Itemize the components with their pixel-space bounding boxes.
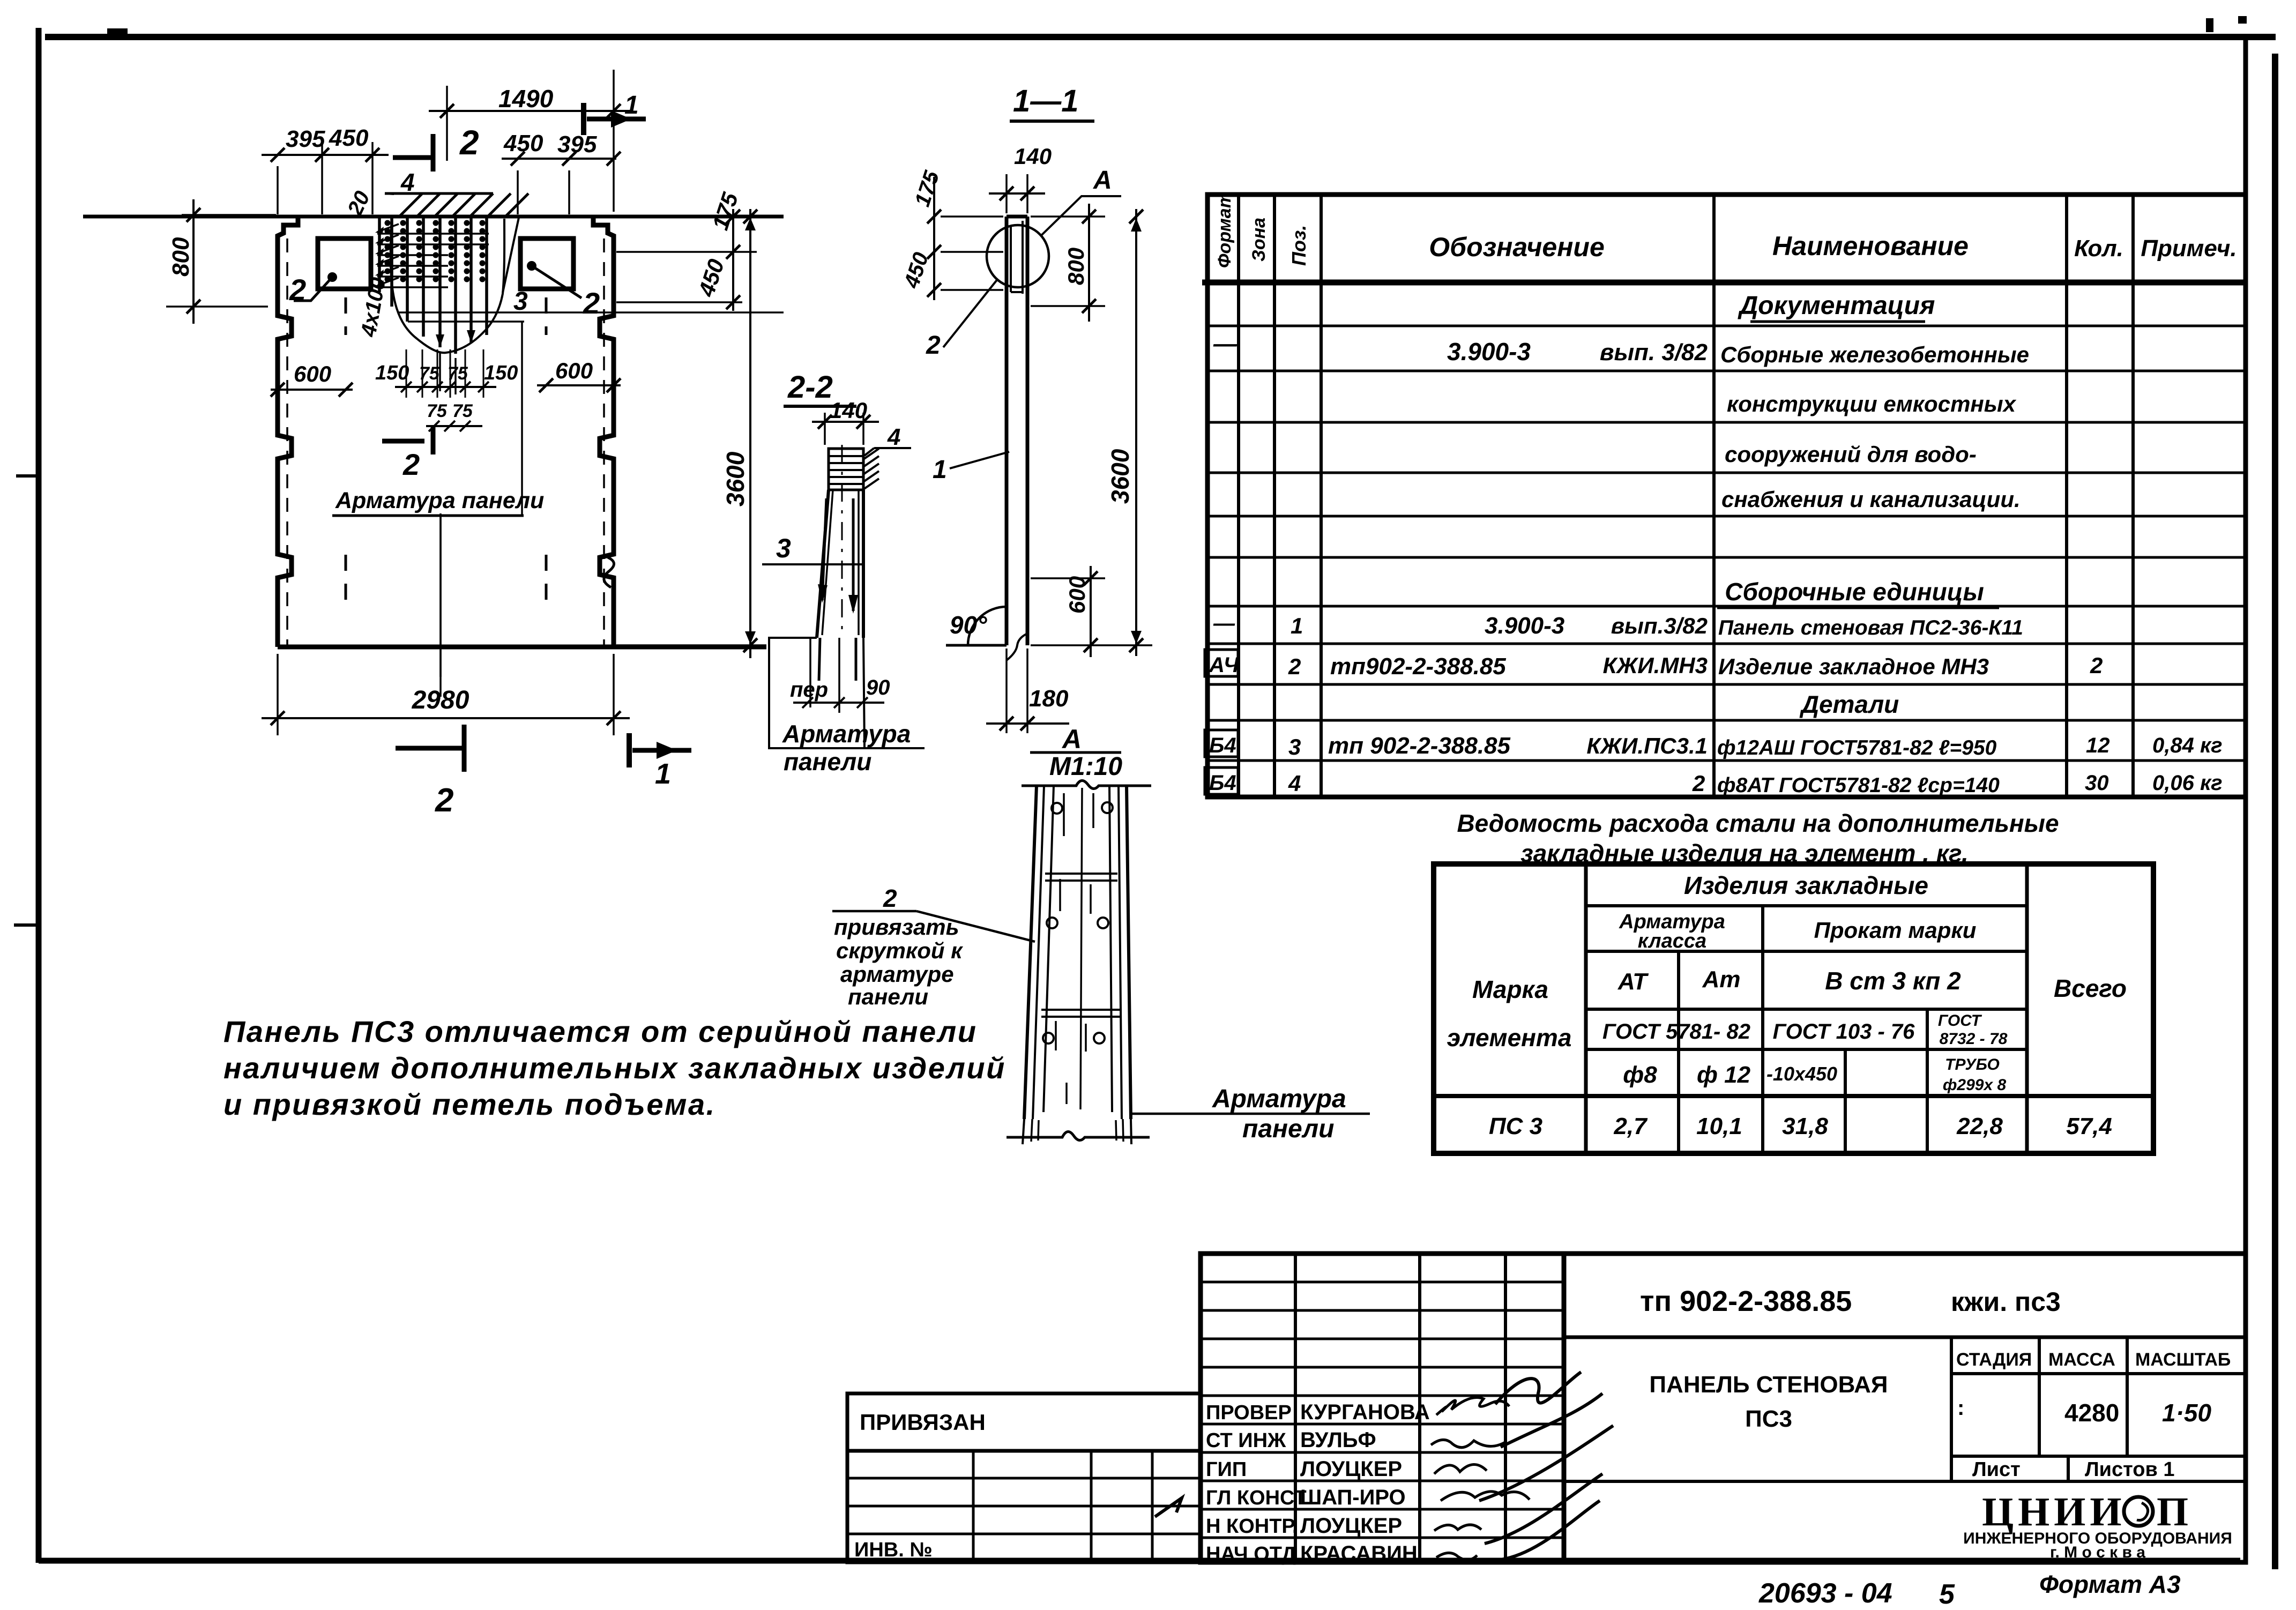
svg-text:ф 12: ф 12	[1697, 1062, 1751, 1088]
section mark 1 bottom right	[627, 733, 632, 767]
svg-text:Ведомость расхода стали на: Ведомость расхода стали на дополнительны…	[1457, 809, 2059, 837]
svg-text:2: 2	[459, 123, 479, 162]
svg-text:Зона: Зона	[1249, 218, 1269, 262]
svg-text:Б4: Б4	[1209, 734, 1236, 757]
spec table row: ф12АIII ГОСТ5781-82	[1205, 730, 1238, 757]
svg-text:Детали: Детали	[1799, 690, 1899, 718]
svg-text:ИНВ. №: ИНВ. №	[854, 1539, 933, 1561]
spec table header separator thick	[1202, 280, 2246, 286]
svg-text:ПРИВЯЗАН: ПРИВЯЗАН	[860, 1410, 986, 1435]
svg-text:Формат А3: Формат А3	[2039, 1570, 2181, 1598]
svg-text:НАЧ ОТД: НАЧ ОТД	[1206, 1543, 1296, 1566]
svg-text:ЛОУЦКЕР: ЛОУЦКЕР	[1300, 1457, 1402, 1481]
svg-text:395: 395	[557, 131, 597, 158]
svg-text:тп 902-2-388.85: тп 902-2-388.85	[1328, 733, 1511, 759]
svg-text:4: 4	[1288, 771, 1301, 796]
svg-text:395: 395	[286, 126, 325, 152]
svg-text:и привязкой петель подъема.: и привязкой петель подъема.	[223, 1087, 716, 1121]
svg-text:20693 - 04: 20693 - 04	[1758, 1578, 1892, 1609]
svg-text:Арматура: Арматура	[782, 720, 911, 748]
title block signature flourishes	[1495, 1372, 1581, 1404]
section 1-1 detail circle A	[987, 225, 1049, 287]
section 2-2 stack hatch marks	[863, 449, 879, 459]
section mark 1 top right	[581, 103, 586, 135]
svg-text:Листов 1: Листов 1	[2085, 1458, 2175, 1481]
section 2-2 rebar bars with arrows	[822, 498, 826, 600]
svg-text:12: 12	[2086, 734, 2110, 757]
svg-text:2980: 2980	[412, 686, 469, 714]
svg-text:ПС 3: ПС 3	[1489, 1113, 1542, 1139]
plan view: bars extending below blob	[439, 353, 441, 391]
plan view: rebar mesh horizontal lines	[377, 233, 489, 235]
svg-text:Всего: Всего	[2054, 974, 2127, 1002]
svg-text:панели: панели	[848, 984, 928, 1009]
svg-text:П: П	[2157, 1489, 2188, 1534]
position label 2 left opening with dot	[327, 272, 337, 282]
dimension 3600 plan right	[749, 209, 751, 658]
svg-text:75: 75	[448, 363, 468, 384]
svg-text:140: 140	[830, 398, 867, 423]
detail A rebar dots	[1052, 803, 1062, 814]
dimension 450 395 right	[517, 170, 519, 214]
svg-text:А: А	[1093, 166, 1112, 195]
svg-text:вып. 3/82: вып. 3/82	[1600, 339, 1708, 366]
svg-text:2: 2	[583, 286, 600, 320]
svg-text:2: 2	[883, 884, 897, 912]
svg-text:Панель ПС3 отличается от с: Панель ПС3 отличается от серийной панели	[223, 1015, 977, 1048]
svg-text::: :	[1957, 1396, 1964, 1420]
detail A rungs	[1045, 873, 1117, 875]
svg-text:арматуре: арматуре	[840, 961, 954, 987]
svg-text:ф299х 8: ф299х 8	[1943, 1076, 2007, 1094]
svg-text:90: 90	[866, 676, 890, 699]
svg-text:Изделие закладное МН3: Изделие закладное МН3	[1718, 654, 1989, 679]
svg-text:М1:10: М1:10	[1049, 752, 1122, 781]
dimension 75 75 below	[426, 425, 482, 427]
svg-text:Аm: Аm	[1702, 966, 1741, 993]
svg-text:КРАСАВИН: КРАСАВИН	[1300, 1542, 1418, 1566]
svg-text:1: 1	[933, 456, 947, 484]
detail A inner dashes	[1063, 793, 1065, 836]
svg-text:привязать: привязать	[834, 914, 959, 940]
svg-text:АЧ: АЧ	[1209, 653, 1239, 677]
svg-text:0,06 кг: 0,06 кг	[2152, 771, 2223, 795]
svg-text:150: 150	[484, 362, 518, 384]
svg-text:СТ ИНЖ: СТ ИНЖ	[1206, 1429, 1286, 1452]
section 1-1 label A with leader	[1041, 196, 1121, 236]
detail A bottom stubs and break line	[1023, 1119, 1024, 1144]
dimension 600 left under opening	[271, 389, 353, 391]
svg-text:450: 450	[329, 125, 369, 151]
title block signatures scribbles	[1436, 1398, 1509, 1415]
plan view: rebar vertical bars	[378, 218, 381, 292]
section 1-1 top recess lines	[1010, 225, 1012, 292]
svg-text:75: 75	[419, 363, 440, 384]
svg-text:наличием дополнительных закл: наличием дополнительных закладных издели…	[223, 1051, 1006, 1085]
plan view: panel bottom edge	[278, 645, 766, 650]
svg-text:600: 600	[294, 361, 331, 386]
dimension 175 450 right of plan	[616, 251, 757, 253]
svg-text:Панель стеновая ПС2-36-К11: Панель стеновая ПС2-36-К11	[1718, 616, 2023, 639]
svg-text:150: 150	[375, 362, 409, 384]
svg-text:пер: пер	[790, 678, 828, 702]
svg-text:3.900-3: 3.900-3	[1447, 338, 1531, 366]
svg-text:ГОСТ 103 - 76: ГОСТ 103 - 76	[1773, 1020, 1915, 1043]
section 2-2 column body	[817, 490, 829, 638]
svg-text:450: 450	[503, 130, 543, 156]
svg-text:180: 180	[1029, 685, 1069, 712]
section 2-2 anchor box	[769, 638, 925, 748]
svg-text:—: —	[1213, 612, 1235, 635]
svg-text:Сборочные единицы: Сборочные единицы	[1725, 578, 1984, 606]
svg-text:ф12АШ ГОСТ5781-82 ℓ=950: ф12АШ ГОСТ5781-82 ℓ=950	[1717, 736, 1997, 759]
svg-text:10,1: 10,1	[1696, 1113, 1742, 1139]
svg-text:тп 902-2-388.85: тп 902-2-388.85	[1640, 1285, 1852, 1317]
plan view: rebar scallop bumps	[385, 220, 391, 226]
plan view: panel top edge with extension line	[83, 215, 784, 219]
section mark 2 bottom	[396, 746, 466, 751]
plan view: inner dashed edge lines	[286, 238, 288, 647]
svg-text:140: 140	[1014, 144, 1052, 169]
svg-text:1·50: 1·50	[2162, 1399, 2211, 1427]
section 1-1 dimension 800 right	[1031, 215, 1105, 218]
section 1-1 90 degree angle	[946, 644, 1007, 647]
plan view: panel outline	[278, 217, 298, 647]
svg-text:Формат: Формат	[1214, 192, 1235, 268]
dimension 2980 bottom	[277, 654, 279, 735]
svg-text:800: 800	[168, 237, 194, 277]
left margin tick	[14, 923, 40, 927]
svg-text:3: 3	[776, 533, 791, 563]
section 2-2 centerline dashed	[841, 445, 843, 637]
title block left extension ПРИВЯЗАН box	[847, 1393, 1201, 1451]
svg-text:Примеч.: Примеч.	[2141, 235, 2237, 262]
spec table column lines	[1237, 195, 1240, 797]
svg-text:Марка: Марка	[1472, 975, 1548, 1003]
svg-text:ЛОУЦКЕР: ЛОУЦКЕР	[1300, 1514, 1402, 1538]
svg-text:4: 4	[400, 168, 415, 196]
svg-text:А: А	[1061, 724, 1082, 754]
plan view: rebar mesh left arrows	[378, 224, 399, 232]
svg-text:ПС3: ПС3	[1745, 1406, 1792, 1432]
section 1-1 column outline	[1005, 217, 1009, 645]
detail A cage outline	[1024, 786, 1037, 1119]
svg-text:30: 30	[2085, 771, 2109, 795]
svg-text:Прокат марки: Прокат марки	[1814, 918, 1977, 943]
svg-text:КЖИ.ПС3.1: КЖИ.ПС3.1	[1586, 733, 1708, 758]
svg-text:сооружений для водо-: сооружений для водо-	[1725, 442, 1977, 467]
svg-text:ЦНИИ: ЦНИИ	[1982, 1489, 2126, 1534]
plan view: opening centerline dashes left	[345, 297, 347, 335]
position label 2 right opening with dot	[527, 261, 536, 271]
title block стадия масса масштаб header	[1950, 1337, 1953, 1481]
svg-text:1—1: 1—1	[1013, 84, 1079, 118]
svg-text:Поз.: Поз.	[1288, 225, 1310, 266]
sheet outer right border	[2272, 54, 2278, 1569]
svg-text:4280: 4280	[2064, 1399, 2119, 1427]
svg-text:Н КОНТР.: Н КОНТР.	[1206, 1515, 1298, 1538]
svg-text:2: 2	[435, 782, 453, 819]
title block row тп 902-2-388.85	[1564, 1336, 2246, 1339]
svg-text:панели: панели	[784, 748, 871, 776]
plan view: hatched closure strip above panel	[385, 192, 493, 195]
svg-text:8732 - 78: 8732 - 78	[1940, 1030, 2008, 1048]
svg-text:ф8: ф8	[1623, 1062, 1657, 1088]
svg-text:3: 3	[1288, 734, 1301, 759]
svg-text:ГОСТ 5781- 82: ГОСТ 5781- 82	[1602, 1020, 1750, 1043]
section 2-2 bars into box	[819, 638, 820, 681]
svg-text:В ст 3 кп 2: В ст 3 кп 2	[1825, 967, 1961, 995]
svg-text:75: 75	[452, 401, 473, 421]
svg-text:2: 2	[1288, 654, 1301, 679]
svg-text:800: 800	[1063, 248, 1089, 285]
svg-text:КЖИ.МН3: КЖИ.МН3	[1603, 653, 1708, 678]
plan view: rebar bottom arrowheads	[436, 334, 444, 347]
svg-text:СТАДИЯ: СТАДИЯ	[1956, 1350, 2032, 1370]
detail A center line	[1080, 788, 1082, 1109]
plan view: right edge break squiggle	[604, 557, 614, 587]
sheet frame bottom border	[39, 1558, 2240, 1564]
svg-text:ТРУБО: ТРУБО	[1945, 1056, 2000, 1074]
left margin tick 2	[16, 474, 40, 478]
spec table row lines	[1207, 325, 2246, 327]
dimension 800 left	[182, 214, 276, 216]
svg-text:класса: класса	[1638, 930, 1706, 952]
detail A top break line with squiggle	[1022, 780, 1151, 788]
svg-text:КУРГАНОВА: КУРГАНОВА	[1300, 1400, 1430, 1424]
svg-text:ШАП-ИРО: ШАП-ИРО	[1300, 1486, 1406, 1509]
svg-text:2: 2	[1692, 771, 1705, 796]
plan view: left lifting opening	[318, 238, 371, 289]
svg-text:5: 5	[1939, 1579, 1955, 1610]
title block check mark left	[1155, 1498, 1182, 1517]
svg-text:2: 2	[926, 331, 941, 360]
section mark 2 top	[393, 155, 435, 160]
svg-text:МАСШТАБ: МАСШТАБ	[2135, 1350, 2231, 1370]
svg-text:АТ: АТ	[1617, 968, 1649, 995]
sheet frame corner mark	[107, 28, 128, 34]
svg-text:—: —	[1213, 331, 1238, 357]
svg-text:3.900-3: 3.900-3	[1485, 613, 1564, 639]
position mark 2 middle with flag	[382, 439, 424, 444]
svg-text:31,8: 31,8	[1782, 1113, 1828, 1139]
svg-text:4: 4	[887, 424, 900, 450]
svg-text:1: 1	[624, 91, 639, 120]
title block Лист Листов row	[1564, 1480, 2246, 1483]
svg-text:0,84 кг: 0,84 кг	[2152, 734, 2223, 757]
plan view: opening centerline dashes right	[545, 297, 548, 335]
sheet frame top border	[45, 34, 2276, 40]
svg-text:ф8АТ ГОСТ5781-82 ℓср=140: ф8АТ ГОСТ5781-82 ℓср=140	[1717, 774, 2000, 797]
title block central grid outline	[1201, 1254, 1564, 1562]
svg-text:Арматура: Арматура	[1212, 1085, 1346, 1113]
title block left extension grid	[847, 1451, 1201, 1562]
svg-text:600: 600	[555, 358, 593, 383]
spec table outer border	[1207, 195, 2246, 797]
svg-text:панели: панели	[1242, 1115, 1334, 1143]
svg-text:3600: 3600	[1106, 449, 1134, 504]
plan view: right lifting opening	[520, 238, 573, 289]
svg-text:2-2: 2-2	[787, 370, 833, 405]
dimension 1490 top	[446, 86, 448, 161]
svg-text:ГИП: ГИП	[1206, 1458, 1247, 1481]
svg-text:2: 2	[2090, 653, 2103, 678]
svg-text:3: 3	[513, 287, 528, 316]
section cut line 2 vertical	[439, 513, 442, 677]
dimension 395 450 left	[277, 166, 279, 214]
section 1-1 dimension 180 bottom	[1005, 649, 1008, 733]
svg-text:Наименование: Наименование	[1772, 231, 1969, 261]
svg-text:2,7: 2,7	[1613, 1113, 1648, 1139]
steel table outer border	[1434, 864, 2153, 1153]
svg-text:Документация: Документация	[1738, 292, 1935, 320]
top right specks	[2206, 18, 2213, 32]
section 2-2 loop bar stack	[829, 449, 863, 490]
svg-text:ГОСТ: ГОСТ	[1938, 1012, 1982, 1030]
svg-text:Лист: Лист	[1972, 1458, 2021, 1481]
svg-text:2: 2	[289, 273, 306, 307]
svg-text:снабжения и канализации.: снабжения и канализации.	[1721, 487, 2021, 512]
spec table row: Изделие закладное МН3	[1205, 650, 1238, 676]
svg-text:Кол.: Кол.	[2074, 235, 2123, 262]
svg-text:Б4: Б4	[1209, 771, 1236, 795]
steel table verticals	[1584, 864, 1588, 1153]
svg-text:600: 600	[1064, 576, 1090, 614]
title block central grid columns	[1294, 1254, 1297, 1562]
svg-text:57,4: 57,4	[2066, 1113, 2112, 1139]
svg-text:скруткой к: скруткой к	[836, 938, 963, 963]
svg-text:Сборные железобетонные: Сборные железобетонные	[1720, 342, 2029, 367]
svg-text:1: 1	[655, 758, 671, 790]
title block масса масштаб values	[1951, 1455, 2246, 1458]
title block right part outline	[1564, 1254, 2246, 1562]
section 2-2 box inner lines	[809, 638, 811, 707]
section 1-1 dimension 3600 right	[1135, 209, 1137, 656]
svg-text:22,8: 22,8	[1956, 1113, 2003, 1139]
svg-text:МАССА: МАССА	[2048, 1350, 2115, 1370]
section 1-1 dimension 600 right	[1031, 577, 1105, 579]
svg-text:1490: 1490	[498, 85, 554, 113]
svg-text:тп902-2-388.85: тп902-2-388.85	[1330, 653, 1506, 680]
spec table row: 2 ф8АI ГОСТ5781-82	[1205, 767, 1238, 794]
svg-text:конструкции емкостных: конструкции емкостных	[1727, 391, 2017, 416]
sheet inner right border	[2243, 40, 2248, 1563]
plan view: thin horizontal lines through blob	[398, 311, 784, 314]
svg-text:2: 2	[402, 448, 420, 481]
svg-text:ПАНЕЛЬ СТЕНОВАЯ: ПАНЕЛЬ СТЕНОВАЯ	[1649, 1372, 1888, 1398]
svg-text:ПРОВЕР: ПРОВЕР	[1206, 1402, 1292, 1424]
sheet frame left border	[36, 28, 42, 1563]
section 1-1 dimension 175 450 left	[933, 177, 935, 300]
section 1-1 base break squiggle	[1007, 633, 1027, 660]
svg-text:ВУЛЬФ: ВУЛЬФ	[1300, 1428, 1376, 1452]
svg-text:Арматура панели: Арматура панели	[335, 488, 544, 513]
svg-text:75: 75	[427, 401, 448, 421]
steel table horizontals	[1586, 904, 2027, 907]
svg-text:1: 1	[1291, 613, 1303, 638]
svg-text:кжи. пс3: кжи. пс3	[1951, 1287, 2061, 1317]
svg-text:Обозначение: Обозначение	[1429, 232, 1605, 262]
dimension 600 right under opening	[537, 384, 621, 386]
plan view: rebar detail blob outline	[391, 218, 504, 353]
title block central grid rows	[1201, 1281, 1564, 1284]
svg-text:г. М о с к в а: г. М о с к в а	[2050, 1544, 2145, 1561]
svg-text:3600: 3600	[721, 451, 749, 506]
svg-text:-10х450: -10х450	[1766, 1063, 1837, 1085]
svg-text:вып.3/82: вып.3/82	[1611, 613, 1708, 638]
svg-text:Изделия закладные: Изделия закладные	[1684, 871, 1928, 899]
svg-text:элемента: элемента	[1447, 1024, 1572, 1052]
svg-text:ГЛ КОНСТ: ГЛ КОНСТ	[1206, 1487, 1307, 1509]
dimension cluster 150 75 75 150	[406, 349, 407, 398]
svg-text:90°: 90°	[950, 611, 987, 639]
plan view: blob right diagonal	[503, 218, 519, 293]
